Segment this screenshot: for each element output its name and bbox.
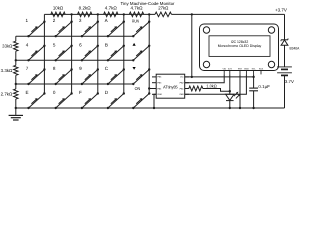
wire row rail 3 xyxy=(16,83,134,85)
wire +3.7V drop to diode xyxy=(284,14,286,39)
svg-text:3.7V: 3.7V xyxy=(285,79,294,84)
wire ground rail xyxy=(16,107,285,109)
svg-text:VIN: VIN xyxy=(222,68,226,71)
pushbutton key 0 row4 xyxy=(56,94,72,109)
svg-text:RST: RST xyxy=(238,68,243,71)
svg-text:B: B xyxy=(105,42,108,47)
pushbutton key 2 row1 xyxy=(56,22,72,37)
wire column 3 xyxy=(97,14,99,93)
svg-text:33kΩ: 33kΩ xyxy=(2,44,13,49)
wire chain segments xyxy=(15,36,17,41)
pushbutton key 7 row3 xyxy=(29,70,45,85)
wire GND pin to ground rail xyxy=(154,94,156,108)
display module U2 I2C 128x32 OLED xyxy=(200,24,279,71)
pushbutton key 4 row2 xyxy=(29,46,45,61)
pushbutton key C row3 xyxy=(108,70,124,85)
pushbutton key 8 row3 xyxy=(56,70,72,85)
svg-text:0: 0 xyxy=(53,90,56,95)
battery 3.7V xyxy=(277,66,292,68)
wire column 4 xyxy=(123,14,125,93)
pushbutton key 5 row2 xyxy=(56,46,72,61)
svg-text:5: 5 xyxy=(53,42,56,47)
pushbutton key A row1 xyxy=(108,22,124,37)
svg-text:4.7kΩ: 4.7kΩ xyxy=(131,6,144,11)
wire column 2 xyxy=(71,14,73,93)
resistor 27kΩ xyxy=(155,12,172,17)
pushbutton key up-arrow row2 xyxy=(133,46,149,61)
pushbutton key RUN row1 xyxy=(133,22,149,37)
wire row rail 1 xyxy=(16,35,134,37)
svg-text:2: 2 xyxy=(53,18,56,23)
pushbutton key ON row4 xyxy=(133,94,149,109)
svg-text:GND: GND xyxy=(244,68,249,71)
wire SDA PB0 to display xyxy=(185,74,247,94)
wire row rail 2 xyxy=(16,59,134,61)
svg-text:B340A: B340A xyxy=(290,47,300,51)
svg-text:+3.7V: +3.7V xyxy=(275,7,287,12)
wire PB4 to keypad column 5 xyxy=(149,88,156,90)
svg-text:GND: GND xyxy=(157,93,162,96)
resistor 2.7kΩ xyxy=(14,89,18,99)
svg-text:10kΩ: 10kΩ xyxy=(53,6,64,11)
svg-text:2.7kΩ: 2.7kΩ xyxy=(1,92,14,97)
wire Vcc to display xyxy=(185,76,254,78)
svg-text:8.2kΩ: 8.2kΩ xyxy=(79,6,92,11)
wire SCL PB2 to display xyxy=(185,74,225,82)
resistor 33kΩ xyxy=(14,41,18,51)
svg-text:ATtiny85: ATtiny85 xyxy=(163,84,178,89)
resistor 1.0kΩ xyxy=(189,86,203,91)
capacitor 0.1µF xyxy=(253,77,255,88)
pushbutton key F row4 xyxy=(82,94,98,109)
junction dots top rail xyxy=(70,13,72,15)
pushbutton key 3 row1 xyxy=(82,22,98,37)
wire display RST down xyxy=(229,74,231,91)
wire +3.7V top rail xyxy=(44,13,155,15)
svg-text:7: 7 xyxy=(26,66,29,71)
wire 1.0kΩ to LED node xyxy=(203,89,230,92)
svg-text:3.3kΩ: 3.3kΩ xyxy=(1,68,14,73)
svg-text:27kΩ: 27kΩ xyxy=(158,6,169,11)
pushbutton key 6 row2 xyxy=(82,46,98,61)
resistor 3.3kΩ xyxy=(14,65,18,75)
pushbutton key 1 row1 xyxy=(29,22,45,37)
wire column 5 xyxy=(148,14,150,93)
wire Vcc drop xyxy=(191,14,193,77)
wire display GND to ground rail xyxy=(239,74,241,108)
svg-text:0.1µF: 0.1µF xyxy=(258,84,270,89)
resistor 8.2kΩ (col2-col3) xyxy=(78,12,92,17)
svg-text:F: F xyxy=(79,90,82,95)
IC U1 ATtiny85 xyxy=(156,74,185,98)
svg-text:1: 1 xyxy=(26,18,29,23)
LED xyxy=(229,91,231,94)
ground xyxy=(15,108,17,115)
pushbutton key D row4 xyxy=(108,94,124,109)
pushbutton key E row4 xyxy=(29,94,45,109)
svg-text:8: 8 xyxy=(53,66,56,71)
diode B340A xyxy=(281,39,288,41)
svg-text:Vcc: Vcc xyxy=(180,76,183,79)
resistor 10kΩ (col1-col2) xyxy=(51,12,65,17)
svg-text:SDA: SDA xyxy=(259,68,264,71)
svg-text:RUN: RUN xyxy=(132,19,139,24)
resistor 4.7kΩ (col3-col4) xyxy=(104,12,118,17)
svg-text:Monochrome OLED Display: Monochrome OLED Display xyxy=(218,44,262,48)
svg-text:1.0kΩ: 1.0kΩ xyxy=(206,83,216,88)
wire column 1 xyxy=(43,14,45,93)
pushbutton key 9 row3 xyxy=(82,70,98,85)
svg-text:ON: ON xyxy=(135,86,141,91)
resistor 4.7kΩ (col4-col5) xyxy=(129,12,143,17)
pushbutton key down-arrow row3 xyxy=(133,70,149,85)
pushbutton key B row2 xyxy=(108,46,124,61)
svg-text:3: 3 xyxy=(79,18,82,23)
svg-text:4: 4 xyxy=(26,42,29,47)
display pins xyxy=(223,71,225,75)
svg-text:E: E xyxy=(25,90,28,95)
svg-text:9: 9 xyxy=(79,66,82,71)
svg-text:6: 6 xyxy=(79,42,82,47)
svg-text:4.7kΩ: 4.7kΩ xyxy=(105,6,118,11)
